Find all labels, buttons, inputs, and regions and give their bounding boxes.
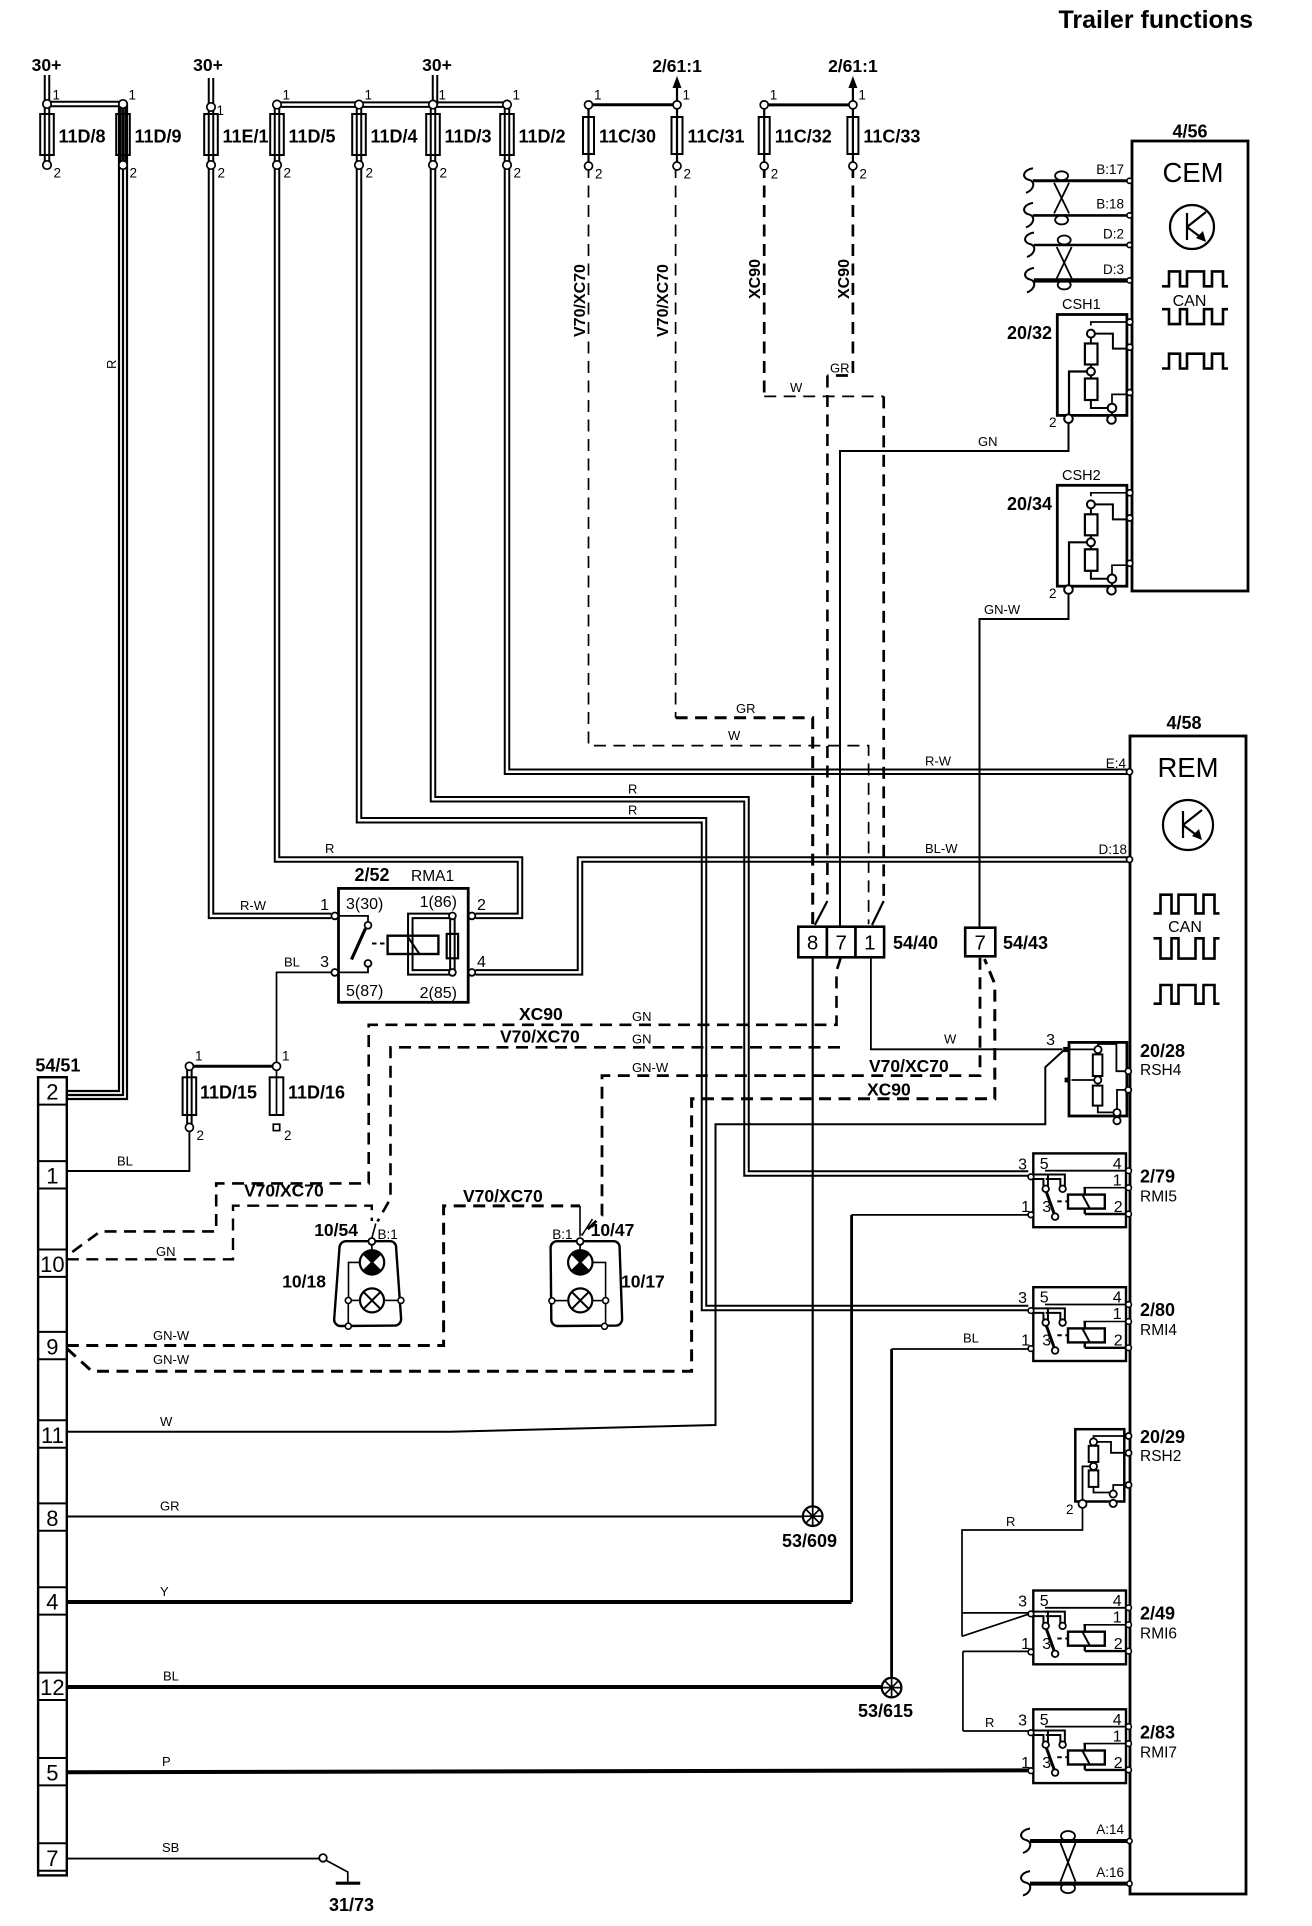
svg-text:BL: BL — [163, 1669, 179, 1684]
svg-text:2/79: 2/79 — [1140, 1166, 1175, 1186]
svg-text:CAN: CAN — [1173, 293, 1207, 310]
svg-text:53/615: 53/615 — [858, 1701, 913, 1721]
svg-text:5: 5 — [1040, 1290, 1049, 1307]
svg-text:3: 3 — [1018, 1594, 1027, 1611]
svg-text:5: 5 — [1040, 1156, 1049, 1173]
svg-text:GR: GR — [830, 361, 850, 376]
svg-text:1: 1 — [1021, 1755, 1030, 1772]
svg-text:2: 2 — [54, 166, 62, 181]
svg-text:2: 2 — [771, 167, 779, 182]
svg-text:V70/XC70: V70/XC70 — [572, 264, 589, 337]
svg-text:RMI7: RMI7 — [1140, 1744, 1177, 1761]
svg-text:RMI5: RMI5 — [1140, 1188, 1177, 1205]
svg-text:8: 8 — [46, 1506, 58, 1531]
svg-text:10/17: 10/17 — [621, 1272, 665, 1292]
svg-text:GN-W: GN-W — [153, 1352, 190, 1367]
svg-text:1: 1 — [195, 1049, 203, 1064]
svg-text:XC90: XC90 — [867, 1080, 911, 1100]
svg-text:10/47: 10/47 — [591, 1220, 635, 1240]
svg-text:5: 5 — [1040, 1593, 1049, 1610]
svg-text:7: 7 — [835, 932, 846, 955]
svg-text:R: R — [1006, 1514, 1015, 1529]
svg-text:1: 1 — [282, 1049, 290, 1064]
svg-text:2: 2 — [1114, 1755, 1123, 1772]
svg-text:V70/XC70: V70/XC70 — [244, 1181, 324, 1201]
svg-text:B:18: B:18 — [1096, 197, 1124, 212]
svg-text:1: 1 — [129, 88, 137, 103]
svg-text:GN: GN — [632, 1032, 652, 1047]
svg-text:A:16: A:16 — [1096, 1865, 1124, 1880]
svg-text:A:14: A:14 — [1096, 1822, 1124, 1837]
svg-text:1: 1 — [365, 88, 373, 103]
svg-text:CSH2: CSH2 — [1062, 468, 1101, 484]
svg-text:3: 3 — [1018, 1290, 1027, 1307]
svg-text:BL: BL — [963, 1331, 979, 1346]
svg-text:20/34: 20/34 — [1007, 494, 1052, 514]
svg-text:V70/XC70: V70/XC70 — [869, 1056, 949, 1076]
svg-text:2: 2 — [440, 166, 448, 181]
svg-text:1: 1 — [1113, 1306, 1122, 1323]
svg-text:4: 4 — [1113, 1712, 1122, 1729]
svg-text:P: P — [162, 1754, 171, 1769]
svg-text:SB: SB — [162, 1840, 179, 1855]
svg-text:3: 3 — [320, 954, 329, 971]
svg-text:11C/31: 11C/31 — [688, 127, 745, 147]
svg-text:4/58: 4/58 — [1166, 713, 1201, 733]
svg-text:3: 3 — [1042, 1636, 1051, 1653]
svg-text:1: 1 — [1113, 1610, 1122, 1627]
svg-text:GN: GN — [978, 434, 998, 449]
svg-text:3: 3 — [1046, 1032, 1055, 1049]
svg-text:2: 2 — [284, 1128, 292, 1143]
svg-text:R: R — [985, 1715, 994, 1730]
svg-text:11C/30: 11C/30 — [599, 127, 656, 147]
svg-text:GR: GR — [736, 701, 756, 716]
svg-text:V70/XC70: V70/XC70 — [500, 1027, 580, 1047]
svg-text:2(85): 2(85) — [420, 985, 457, 1002]
svg-text:B:17: B:17 — [1096, 162, 1124, 177]
svg-text:RSH2: RSH2 — [1140, 1448, 1181, 1465]
svg-text:10: 10 — [40, 1252, 64, 1277]
svg-text:2: 2 — [1049, 586, 1057, 601]
svg-text:5(87): 5(87) — [346, 983, 383, 1000]
svg-text:12: 12 — [40, 1675, 64, 1700]
svg-text:11D/9: 11D/9 — [135, 127, 182, 147]
svg-text:11D/16: 11D/16 — [288, 1083, 345, 1103]
svg-text:E:4: E:4 — [1106, 756, 1127, 771]
svg-text:1(86): 1(86) — [420, 894, 457, 911]
svg-text:RMA1: RMA1 — [411, 868, 454, 885]
svg-text:1: 1 — [439, 88, 447, 103]
svg-text:CEM: CEM — [1162, 157, 1223, 188]
svg-text:1: 1 — [864, 932, 875, 955]
svg-text:20/28: 20/28 — [1140, 1041, 1185, 1061]
svg-text:54/40: 54/40 — [893, 933, 938, 953]
svg-text:RSH4: RSH4 — [1140, 1062, 1182, 1079]
svg-text:1: 1 — [770, 88, 778, 103]
svg-text:2: 2 — [284, 166, 292, 181]
svg-text:11E/1: 11E/1 — [223, 127, 269, 147]
svg-text:2: 2 — [197, 1128, 205, 1143]
svg-text:V70/XC70: V70/XC70 — [655, 264, 672, 337]
svg-text:B:1: B:1 — [552, 1227, 572, 1242]
svg-text:W: W — [728, 728, 741, 743]
svg-text:W: W — [944, 1032, 957, 1047]
svg-text:4: 4 — [1113, 1290, 1122, 1307]
svg-text:2: 2 — [1066, 1502, 1074, 1517]
svg-text:7: 7 — [46, 1846, 58, 1871]
svg-text:31/73: 31/73 — [329, 1895, 374, 1915]
svg-text:54/51: 54/51 — [35, 1056, 80, 1076]
svg-text:1: 1 — [1021, 1333, 1030, 1350]
svg-text:1: 1 — [320, 897, 329, 914]
svg-text:1: 1 — [46, 1164, 58, 1189]
svg-text:2: 2 — [218, 166, 226, 181]
svg-text:2: 2 — [1114, 1333, 1123, 1350]
svg-text:GR: GR — [160, 1499, 180, 1514]
svg-text:4: 4 — [1113, 1156, 1122, 1173]
svg-text:1: 1 — [858, 88, 866, 103]
svg-text:XC90: XC90 — [519, 1004, 563, 1024]
svg-text:GN-W: GN-W — [984, 602, 1021, 617]
svg-text:1: 1 — [283, 88, 291, 103]
svg-text:9: 9 — [46, 1334, 58, 1359]
svg-text:2/52: 2/52 — [354, 865, 389, 885]
svg-text:GN-W: GN-W — [632, 1060, 669, 1075]
svg-text:10/18: 10/18 — [282, 1272, 326, 1292]
svg-text:3: 3 — [1018, 1712, 1027, 1729]
svg-text:GN: GN — [632, 1009, 652, 1024]
svg-text:R: R — [325, 841, 334, 856]
svg-text:4: 4 — [477, 954, 486, 971]
svg-text:1: 1 — [1113, 1728, 1122, 1745]
svg-text:BL: BL — [284, 955, 300, 970]
svg-text:CAN: CAN — [1168, 919, 1202, 936]
svg-text:30+: 30+ — [193, 55, 223, 75]
svg-text:4/56: 4/56 — [1172, 122, 1207, 142]
svg-text:11D/2: 11D/2 — [519, 127, 566, 147]
svg-text:8: 8 — [807, 932, 818, 955]
svg-text:2/61:1: 2/61:1 — [652, 56, 702, 76]
svg-text:XC90: XC90 — [836, 259, 853, 299]
svg-text:2/61:1: 2/61:1 — [828, 56, 878, 76]
svg-text:RMI4: RMI4 — [1140, 1322, 1177, 1339]
svg-text:3: 3 — [1042, 1755, 1051, 1772]
svg-text:11D/4: 11D/4 — [371, 127, 418, 147]
svg-text:2: 2 — [595, 167, 603, 182]
svg-text:R-W: R-W — [925, 754, 952, 769]
svg-text:2: 2 — [514, 166, 522, 181]
svg-text:30+: 30+ — [32, 55, 62, 75]
svg-text:BL-W: BL-W — [925, 841, 958, 856]
svg-text:2/49: 2/49 — [1140, 1604, 1175, 1624]
svg-text:11C/32: 11C/32 — [775, 127, 832, 147]
svg-text:11D/3: 11D/3 — [445, 127, 492, 147]
svg-text:2: 2 — [1114, 1199, 1123, 1216]
svg-text:GN-W: GN-W — [153, 1328, 190, 1343]
svg-text:2/83: 2/83 — [1140, 1722, 1175, 1742]
svg-text:W: W — [790, 380, 803, 395]
svg-text:2: 2 — [1114, 1636, 1123, 1653]
svg-text:3: 3 — [1042, 1199, 1051, 1216]
svg-text:11: 11 — [41, 1423, 64, 1448]
svg-text:D:3: D:3 — [1103, 262, 1124, 277]
svg-text:5: 5 — [46, 1761, 58, 1786]
svg-text:1: 1 — [683, 88, 691, 103]
svg-text:2: 2 — [46, 1080, 58, 1105]
svg-text:4: 4 — [46, 1590, 58, 1615]
svg-text:2: 2 — [859, 167, 867, 182]
svg-text:53/609: 53/609 — [782, 1531, 837, 1551]
svg-text:XC90: XC90 — [747, 259, 764, 299]
svg-text:1: 1 — [594, 88, 602, 103]
svg-text:Y: Y — [160, 1584, 169, 1599]
svg-text:11D/15: 11D/15 — [200, 1083, 257, 1103]
svg-text:BL: BL — [117, 1154, 133, 1169]
svg-text:R-W: R-W — [240, 898, 267, 913]
svg-text:2: 2 — [366, 166, 374, 181]
svg-text:3: 3 — [1018, 1156, 1027, 1173]
svg-text:1: 1 — [217, 103, 225, 118]
svg-text:11D/8: 11D/8 — [59, 127, 106, 147]
svg-text:D:2: D:2 — [1103, 227, 1124, 242]
svg-text:4: 4 — [1113, 1593, 1122, 1610]
svg-text:10/54: 10/54 — [314, 1220, 358, 1240]
svg-text:3: 3 — [1042, 1333, 1051, 1350]
svg-text:GN: GN — [156, 1244, 176, 1259]
svg-text:B:1: B:1 — [378, 1227, 398, 1242]
svg-text:2: 2 — [477, 897, 486, 914]
svg-text:W: W — [160, 1414, 173, 1429]
svg-text:1: 1 — [1113, 1172, 1122, 1189]
svg-text:R: R — [628, 782, 637, 797]
svg-text:2/80: 2/80 — [1140, 1300, 1175, 1320]
svg-text:Trailer functions: Trailer functions — [1059, 6, 1253, 34]
svg-text:1: 1 — [1021, 1636, 1030, 1653]
svg-text:CSH1: CSH1 — [1062, 297, 1101, 313]
svg-text:30+: 30+ — [422, 55, 452, 75]
svg-text:2: 2 — [130, 166, 138, 181]
svg-text:11C/33: 11C/33 — [863, 127, 920, 147]
svg-text:D:18: D:18 — [1098, 842, 1127, 857]
svg-text:54/43: 54/43 — [1003, 933, 1048, 953]
svg-text:2: 2 — [1049, 415, 1057, 430]
svg-text:R: R — [628, 803, 637, 818]
svg-text:1: 1 — [1021, 1199, 1030, 1216]
svg-text:11D/5: 11D/5 — [289, 127, 336, 147]
svg-text:5: 5 — [1040, 1712, 1049, 1729]
svg-text:REM: REM — [1157, 752, 1218, 783]
svg-text:3(30): 3(30) — [346, 896, 383, 913]
svg-text:R: R — [104, 360, 119, 369]
svg-text:7: 7 — [974, 932, 985, 955]
svg-text:1: 1 — [53, 88, 61, 103]
svg-text:1: 1 — [513, 88, 521, 103]
svg-text:V70/XC70: V70/XC70 — [463, 1186, 543, 1206]
svg-text:20/32: 20/32 — [1007, 323, 1052, 343]
svg-text:20/29: 20/29 — [1140, 1427, 1185, 1447]
svg-text:RMI6: RMI6 — [1140, 1626, 1177, 1643]
svg-text:2: 2 — [684, 167, 692, 182]
